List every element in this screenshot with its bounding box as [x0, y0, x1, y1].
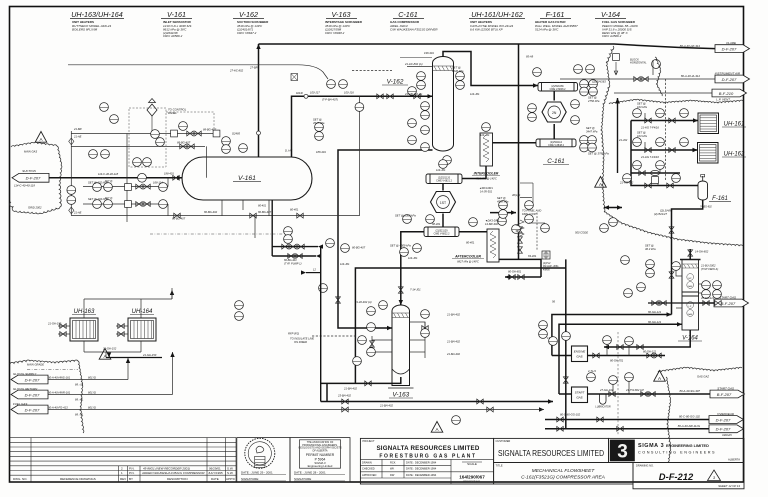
instrument bubbles V-164	[621, 256, 722, 299]
svg-text:114-J01: 114-J01	[480, 133, 490, 137]
svg-text:GAS: GAS	[576, 355, 582, 359]
pipe: V-161 top gas outlet to V-162	[292, 96, 433, 157]
svg-text:21-GH-150: 21-GH-150	[142, 353, 157, 357]
flag: glycol supply	[11, 372, 48, 384]
wire: right of drum vertical	[269, 96, 359, 215]
svg-text:80-GH-121: 80-GH-121	[648, 320, 662, 324]
wire: glycol supply/return/fuel flag lines	[47, 379, 128, 381]
svg-text:36.3 kPa: 36.3 kPa	[645, 247, 656, 251]
svg-text:SET @: SET @	[105, 198, 113, 200]
svg-text:80-GH-801: 80-GH-801	[508, 270, 522, 274]
svg-text:SET @: SET @	[452, 66, 461, 70]
svg-text:2-TL/4: 2-TL/4	[587, 369, 596, 373]
svg-text:DW: DW	[390, 473, 395, 477]
svg-text:CHECKED: CHECKED	[362, 467, 375, 471]
extra circles near x338 riser	[326, 239, 335, 248]
cloud-left	[10, 142, 62, 214]
svg-text:BY: BY	[129, 477, 133, 481]
svg-text:APPROVED: APPROVED	[362, 473, 377, 477]
lubricator	[600, 394, 607, 404]
wire: instrument rows left	[83, 186, 168, 188]
instrument bubbles C-161 + coolers	[400, 65, 598, 339]
svg-text:CRN: A6506.2: CRN: A6506.2	[163, 34, 183, 38]
svg-text:103 kPa: 103 kPa	[637, 134, 647, 138]
svg-text:D2440: D2440	[296, 92, 303, 95]
svg-text:ADDED WAUKESHA F3521G COMPRESS: ADDED WAUKESHA F3521G COMPRESSOR	[141, 471, 205, 475]
svg-text:21-HG 7-F4/16: 21-HG 7-F4/16	[640, 155, 659, 159]
svg-text:◄DK3-DR5: ◄DK3-DR5	[485, 219, 500, 223]
svg-text:B-F-207: B-F-207	[721, 301, 736, 306]
svg-text:UH-161/UH-162: UH-161/UH-162	[471, 10, 523, 19]
pipe: V-164 top feed	[689, 249, 691, 260]
flag: start gas (upper)	[714, 295, 749, 307]
svg-text:80-GH-701: 80-GH-701	[610, 359, 624, 363]
flag: start gas (lower)	[679, 386, 744, 398]
pipe: bottom long header 1	[326, 383, 328, 401]
svg-text:JULY/1995: JULY/1995	[208, 471, 223, 475]
svg-text:(TOP VIEW A): (TOP VIEW A)	[701, 267, 718, 271]
svg-text:60-A-40-HWR-161: 60-A-40-HWR-161	[48, 390, 71, 394]
svg-text:UH-161: UH-161	[724, 122, 745, 128]
svg-text:114-C-40-40-118: 114-C-40-40-118	[98, 172, 119, 176]
pipe: V-164 start gas east to flag	[699, 302, 715, 304]
svg-text:21-HG-602: 21-HG-602	[619, 181, 634, 185]
svg-text:C-161: C-161	[398, 10, 418, 19]
svg-text:21-TW-802 HP: 21-TW-802 HP	[625, 388, 644, 392]
svg-text:80-C-80-GG-102: 80-C-80-GG-102	[560, 413, 581, 417]
svg-text:80-BG-407: 80-BG-407	[172, 217, 186, 221]
svg-text:LUBRICATOR: LUBRICATOR	[595, 406, 610, 409]
svg-text:GLYCOL SUPPLY: GLYCOL SUPPLY	[13, 372, 37, 376]
pipe: aftercooler outlet east	[499, 259, 542, 277]
svg-text:21-BH-402: 21-BH-402	[446, 313, 461, 317]
svg-text:DATE: DATE	[211, 477, 219, 481]
svg-text:P.N.: P.N.	[129, 471, 135, 475]
svg-text:21-BH-402: 21-BH-402	[446, 340, 461, 344]
svg-text:RCK: RCK	[390, 461, 396, 465]
project box	[360, 438, 493, 484]
svg-text:103 kPa: 103 kPa	[637, 105, 647, 109]
svg-text:80-BG-407: 80-BG-407	[352, 246, 366, 250]
wire: instrument air header	[560, 78, 715, 80]
pipe: stage-2 bottle to cylinder to discharge bottle	[442, 184, 444, 191]
cloud-right	[601, 46, 743, 246]
svg-text:FLARE: FLARE	[726, 41, 737, 45]
svg-text:B-F-210: B-F-210	[719, 91, 734, 96]
svg-text:SCALE: SCALE	[467, 462, 477, 466]
svg-text:PANEL: PANEL	[168, 111, 177, 115]
svg-text:D-F-207: D-F-207	[25, 392, 40, 397]
svg-text:GRID 2002: GRID 2002	[28, 206, 42, 210]
pipe: fuel riser down to engine area	[565, 259, 567, 409]
instrument bubbles V-162	[408, 72, 465, 165]
svg-text:188-401: 188-401	[164, 172, 174, 176]
top equipment header notes	[70, 10, 638, 38]
box with X near PSV pair	[291, 74, 298, 81]
svg-text:#3850: #3850	[543, 268, 550, 271]
svg-text:SIGNATURE:: SIGNATURE:	[241, 477, 259, 481]
vessel V-163 interstage scrubber (vertical column)	[392, 305, 410, 386]
svg-text:BOILERS 8FLX/98: BOILERS 8FLX/98	[72, 27, 98, 31]
svg-text:OF ALBERTA: OF ALBERTA	[312, 449, 328, 452]
pipe: relief/flare header	[259, 44, 716, 49]
pipe: fuel gas supply east along y314	[552, 315, 672, 356]
svg-text:21-HC-802 (A): 21-HC-802 (A)	[404, 62, 423, 66]
C-161 stage-2 cylinder (hexagon)	[431, 192, 456, 213]
pipe: to panel and fire loop	[490, 212, 516, 214]
svg-text:06/29/01: 06/29/01	[209, 466, 221, 470]
cloud-right-top	[609, 99, 743, 104]
svg-text:114-J01: 114-J01	[340, 262, 350, 266]
flag: suction D-F-207	[12, 169, 49, 188]
svg-text:V-162: V-162	[387, 79, 404, 86]
svg-text:D-F-207: D-F-207	[25, 407, 40, 412]
svg-text:80-A-40-SG-307: 80-A-40-SG-307	[679, 389, 700, 393]
svg-text:D-F-207: D-F-207	[722, 77, 737, 82]
svg-text:80-401: 80-401	[466, 241, 475, 245]
svg-text:CRN: V6948.2: CRN: V6948.2	[325, 31, 345, 35]
wire: engine gas vent stubs	[606, 343, 608, 356]
svg-text:SET @: SET @	[497, 196, 506, 200]
drawing number box	[633, 463, 744, 489]
wire: LP vent line	[614, 92, 712, 94]
svg-text:PROJECT NO.: PROJECT NO.	[463, 479, 481, 483]
svg-text:56: 56	[552, 300, 555, 304]
pipe: rows riser to LP vent	[617, 98, 619, 173]
svg-text:(2)1521/27: (2)1521/27	[654, 212, 668, 216]
unit heater UH-161 (fin box)	[698, 113, 746, 134]
svg-text:SHEET 12 OF 13: SHEET 12 OF 13	[718, 484, 740, 488]
svg-text:SET @: SET @	[105, 181, 113, 183]
wire: drum drain header y215.6	[71, 215, 269, 217]
svg-text:DATE : DECEMBER-1994: DATE : DECEMBER-1994	[406, 467, 437, 471]
svg-text:Engineering Limited: Engineering Limited	[308, 464, 333, 468]
svg-text:83-401: 83-401	[528, 254, 537, 258]
svg-text:D2485: D2485	[232, 132, 240, 136]
title block: reference drawings table	[10, 438, 237, 482]
svg-text:45-86G1 (NEW RECORDER 2001): 45-86G1 (NEW RECORDER 2001)	[143, 466, 190, 470]
flag: flare	[680, 41, 750, 52]
svg-text:S.W.: S.W.	[227, 471, 234, 475]
svg-text:SET @ 4309 kPa: SET @ 4309 kPa	[390, 244, 411, 248]
svg-text:45-GH-121: 45-GH-121	[701, 296, 715, 300]
svg-text:S.W.: S.W.	[227, 466, 234, 470]
pipe: interstage gas line east	[355, 268, 565, 383]
pipe: V-161 relief riser	[258, 44, 260, 157]
svg-text:SIGNALTA RESOURCES LIMITED: SIGNALTA RESOURCES LIMITED	[376, 445, 479, 452]
svg-text:21-GH-152: 21-GH-152	[102, 347, 117, 351]
pipe: discharge bottle west to V-163 feed	[401, 232, 424, 305]
svg-text:CRN: A4506.2: CRN: A4506.2	[602, 34, 622, 38]
svg-text:80-BG-407: 80-BG-407	[258, 210, 272, 214]
svg-text:80-BG-402: 80-BG-402	[204, 210, 218, 214]
svg-text:V-163: V-163	[332, 10, 351, 19]
svg-text:100-J16: 100-J16	[344, 91, 354, 95]
V-164 left instruments	[637, 283, 646, 292]
svg-text:START GAS: START GAS	[719, 295, 736, 299]
svg-text:D-F-207: D-F-207	[716, 417, 731, 422]
wire: V-163 side connections	[410, 322, 426, 328]
svg-text:21-AE: 21-AE	[73, 135, 82, 139]
svg-text:27-HC-802: 27-HC-802	[229, 69, 244, 73]
svg-text:CWE V-6822.2: CWE V-6822.2	[434, 233, 450, 236]
svg-text:188-401: 188-401	[316, 150, 326, 154]
svg-text:13: 13	[547, 336, 550, 340]
svg-text:DRAIN: DRAIN	[722, 433, 732, 437]
svg-text:60-A-40-FG-413: 60-A-40-FG-413	[48, 405, 68, 409]
svg-text:SET @: SET @	[586, 126, 595, 130]
cloud-botleft	[10, 360, 84, 433]
svg-text:TO PANEL AND: TO PANEL AND	[522, 209, 541, 213]
svg-text:80-BG-401: 80-BG-401	[284, 258, 297, 262]
svg-text:DESCRIPTION: DESCRIPTION	[167, 477, 188, 481]
svg-text:(2)LSH/163: (2)LSH/163	[592, 80, 606, 84]
svg-text:500 CODE: 500 CODE	[575, 231, 588, 235]
svg-text:UH-163/UH-164: UH-163/UH-164	[71, 10, 123, 19]
svg-text:V-161: V-161	[167, 10, 186, 19]
svg-text:V-164: V-164	[601, 10, 620, 19]
misc top right	[613, 54, 661, 75]
pipe: V-162 overhead to stage-1 suction bottle	[443, 52, 538, 86]
svg-text:114-J01: 114-J01	[436, 168, 446, 172]
svg-text:D-F-207: D-F-207	[26, 176, 41, 181]
svg-text:REFERENCE DRAWINGS: REFERENCE DRAWINGS	[60, 477, 96, 481]
wire: control line y65 to PSVs	[68, 65, 328, 79]
svg-text:14-JR-302: 14-JR-302	[480, 190, 493, 194]
svg-text:C-161: C-161	[547, 158, 565, 165]
svg-text:FORESTBURG GAS PLANT: FORESTBURG GAS PLANT	[379, 454, 476, 460]
svg-text:(TYP. PUMP 1): (TYP. PUMP 1)	[284, 261, 302, 265]
svg-text:GAS GAZ: GAS GAZ	[697, 375, 709, 379]
svg-text:START: START	[575, 391, 586, 395]
svg-text:85-A9: 85-A9	[526, 55, 534, 59]
svg-text:DRAWN: DRAWN	[362, 461, 372, 465]
svg-text:REV: REV	[120, 477, 126, 481]
pipe: start gas supply	[588, 393, 711, 395]
svg-text:SIGMA 3: SIGMA 3	[638, 443, 664, 449]
svg-text:8827 kPa @ 149'C: 8827 kPa @ 149'C	[457, 259, 479, 263]
engine gas box	[572, 346, 588, 362]
vessel V-162 suction scrubber (vertical column)	[433, 57, 454, 152]
wire: heater return line y146.4	[71, 145, 205, 147]
svg-text:80-C-80-GG-102: 80-C-80-GG-102	[679, 415, 700, 419]
svg-text:SIGNATURE: SIGNATURE	[294, 477, 311, 481]
instrument bubbles above V-161	[222, 80, 364, 154]
pipe: blowdown riser at x518.5	[518, 44, 520, 259]
cloud-botright2	[666, 377, 671, 462]
svg-text:FUEL GAS: FUEL GAS	[13, 402, 27, 406]
svg-text:6.6 KW (22500 BTU) XP: 6.6 KW (22500 BTU) XP	[470, 27, 503, 31]
svg-text:SET @: SET @	[637, 102, 646, 106]
svg-text:69.-.01: 69.-.01	[75, 412, 84, 416]
pipe: V-162 bottoms header down to V-163	[338, 150, 433, 328]
svg-text:14-GH-802: 14-GH-802	[695, 250, 709, 254]
svg-text:DWG. NO.: DWG. NO.	[13, 477, 27, 481]
svg-text:DATE : DECEMBER-1994: DATE : DECEMBER-1994	[406, 461, 437, 465]
svg-text:69.-.01: 69.-.01	[75, 382, 84, 386]
svg-text:DRAWING NO.: DRAWING NO.	[636, 464, 654, 468]
svg-text:21-HG 7-F4/16: 21-HG 7-F4/16	[640, 126, 659, 130]
svg-text:INSTRUMENT AIR: INSTRUMENT AIR	[715, 71, 741, 75]
svg-text:21-GH-153: 21-GH-153	[47, 322, 62, 326]
svg-text:SET @: SET @	[645, 244, 654, 248]
extra details final	[528, 104, 537, 113]
wire: blowdown stack details	[520, 197, 532, 199]
svg-text:7-14-J01: 7-14-J01	[410, 288, 421, 292]
svg-text:CWE V-6848.2: CWE V-6848.2	[548, 144, 564, 147]
svg-text:21-J02: 21-J02	[618, 138, 628, 142]
svg-text:ALBERTA: ALBERTA	[728, 458, 740, 462]
instrument bubbles (left cluster)	[67, 103, 220, 209]
svg-text:ENGINE: ENGINE	[574, 350, 587, 354]
svg-text:60LYD: 60LYD	[88, 405, 96, 409]
svg-text:69.-.01: 69.-.01	[75, 397, 84, 401]
svg-text:V-161: V-161	[238, 175, 256, 182]
svg-text:4240 kPa: 4240 kPa	[452, 69, 464, 73]
svg-text:CWE V-6821.2: CWE V-6821.2	[436, 180, 452, 183]
svg-text:PERMIT NUMBER: PERMIT NUMBER	[306, 453, 335, 457]
svg-text:GAS: GAS	[576, 396, 582, 400]
svg-text:80-GH-121: 80-GH-121	[648, 310, 662, 314]
svg-text:GAS: GAS	[688, 285, 693, 288]
C-161 stage-1 discharge bottle	[536, 139, 576, 147]
svg-text:89-BG-407: 89-BG-407	[177, 140, 191, 144]
svg-text:L.P. VENT: L.P. VENT	[716, 98, 731, 102]
svg-text:80-401: 80-401	[258, 204, 267, 208]
svg-text:114-J01: 114-J01	[408, 256, 418, 260]
svg-text:START GAS: START GAS	[717, 386, 734, 390]
pipe: heater gas row 2	[631, 149, 698, 151]
C-161 stage-1 cylinder (hexagon)	[542, 102, 566, 122]
svg-text:27-BR: 27-BR	[249, 66, 258, 70]
svg-text:21-AE: 21-AE	[73, 211, 82, 215]
svg-text:MAIN GRADE: MAIN GRADE	[27, 363, 44, 367]
svg-text:GLYCOL RETURN: GLYCOL RETURN	[13, 387, 38, 391]
svg-text:◄DK3-DR1: ◄DK3-DR1	[479, 186, 493, 190]
svg-text:DATE : DECEMBER-1994: DATE : DECEMBER-1994	[406, 473, 437, 477]
pipe: heater gas row 1	[631, 120, 698, 122]
svg-text:UH-164: UH-164	[132, 309, 153, 315]
svg-text:D-F-207: D-F-207	[716, 427, 731, 432]
svg-text:D, HC: D, HC	[285, 149, 292, 153]
svg-text:V-163: V-163	[392, 392, 409, 399]
svg-text:AFTERCOOLER: AFTERCOOLER	[454, 255, 481, 259]
valves on main lines	[60, 77, 721, 432]
start gas box	[572, 387, 588, 403]
warning triangle right cloud	[595, 177, 607, 188]
svg-text:PROJECT: PROJECT	[363, 439, 376, 443]
pipe: V-163 drain	[320, 377, 401, 383]
svg-text:80-GH-121: 80-GH-121	[643, 350, 657, 354]
flag: instrument air	[681, 71, 750, 83]
wire: drum drain nozzles	[221, 200, 223, 216]
unit heater UH-164 (fin box)	[128, 309, 156, 341]
svg-text:2756 kPa: 2756 kPa	[587, 99, 600, 103]
wire: V-162 level line	[407, 66, 433, 68]
svg-text:TITLE: TITLE	[496, 463, 503, 467]
pipe: heater row mid	[631, 172, 680, 174]
pipe: V-164 bottom drain loop	[604, 330, 690, 347]
flag: drain	[678, 424, 744, 437]
title box	[494, 463, 633, 485]
flag: fuel gas	[11, 402, 48, 414]
svg-text:CUSTOMER: CUSTOMER	[496, 439, 511, 443]
wire: drain drop x255	[254, 216, 256, 238]
svg-text:D-F-207: D-F-207	[25, 377, 40, 382]
svg-text:D-F-207: D-F-207	[722, 46, 737, 51]
vessel V-161 inlet separator (horizontal drum)	[182, 157, 312, 200]
instrument bubbles engine/start gas	[549, 332, 634, 385]
svg-text:4547 kPa: 4547 kPa	[313, 121, 325, 125]
svg-text:TO INSULATE LINE: TO INSULATE LINE	[290, 337, 314, 341]
pipe: intercooler to stage-2 suction bottle	[462, 166, 486, 179]
svg-text:F-161: F-161	[546, 10, 565, 19]
extra blowdown stack details	[516, 183, 546, 259]
revision clouds	[10, 46, 743, 462]
inline diamonds on glycol header	[69, 138, 74, 145]
pipe: stage-2 discharge to aftercooler	[459, 231, 487, 233]
svg-text:C/W WAUKESHA F3521G DRIVER: C/W WAUKESHA F3521G DRIVER	[390, 27, 438, 31]
svg-text:60-A-40-HWS-161: 60-A-40-HWS-161	[48, 375, 71, 379]
svg-text:4588 kPa: 4588 kPa	[497, 199, 509, 203]
wire: drop from y146 to main	[206, 146, 208, 177]
svg-text:100-J17: 100-J17	[310, 91, 320, 95]
svg-text:MECHANICAL FLOWSHEET: MECHANICAL FLOWSHEET	[532, 468, 596, 474]
svg-text:1ST: 1ST	[440, 201, 446, 205]
svg-text:60LYD: 60LYD	[88, 375, 96, 379]
svg-text:21-BH-402: 21-BH-402	[343, 387, 358, 391]
svg-text:164/290/067: 164/290/067	[459, 474, 485, 479]
pipe: heater gas row 3 manifold	[631, 121, 698, 186]
svg-text:21-40-402 (A): 21-40-402 (A)	[354, 300, 372, 304]
wire: RFP dashed line	[312, 335, 356, 337]
wire: row1 branch stubs	[644, 113, 646, 121]
wire: IA dashed drop	[665, 79, 667, 180]
wire: UH-163/164 piping	[83, 299, 85, 318]
warning triangle top-left	[35, 132, 47, 143]
svg-text:168-114: 168-114	[153, 181, 163, 185]
intercooler (vertical exchanger box)	[480, 133, 493, 166]
pipe: F-161 outlet down to V-164	[672, 200, 703, 315]
wire: heater supply line y133.5	[71, 133, 213, 135]
svg-text:P.N.: P.N.	[129, 466, 135, 470]
unit heater UH-163 (fin box)	[70, 309, 98, 341]
svg-text:SET @: SET @	[588, 96, 597, 100]
flag: glycol return	[11, 387, 48, 399]
flag: LP vent	[712, 89, 747, 102]
svg-text:74-BG-902: 74-BG-902	[700, 206, 712, 209]
svg-text:ON RISER: ON RISER	[294, 340, 307, 344]
svg-text:SET @ 2309 kPa: SET @ 2309 kPa	[395, 214, 416, 218]
svg-text:21-BU-2002: 21-BU-2002	[700, 264, 716, 268]
pipe: stage-1 bottle to cylinder to discharge bottle	[553, 91, 555, 101]
svg-text:SET @: SET @	[637, 131, 646, 135]
svg-text:114-J01: 114-J01	[470, 92, 480, 96]
customer box	[494, 438, 609, 462]
stamp box with engineers seal	[237, 438, 290, 482]
permit box	[290, 438, 350, 482]
svg-text:40(L)D: 40(L)D	[512, 193, 520, 197]
pipe: suction inlet to V-161	[48, 177, 182, 179]
svg-text:V-162: V-162	[239, 10, 258, 19]
svg-text:(2)LSH/83: (2)LSH/83	[660, 209, 673, 213]
XV control box	[542, 251, 550, 259]
svg-text:RFP (P2): RFP (P2)	[288, 332, 299, 336]
flag: overhead drain	[679, 412, 744, 424]
C-161 stage-2 discharge bottle	[424, 227, 459, 237]
pipe: engine gas supply	[588, 355, 666, 357]
svg-text:114-C-40-40-118: 114-C-40-40-118	[14, 184, 35, 188]
